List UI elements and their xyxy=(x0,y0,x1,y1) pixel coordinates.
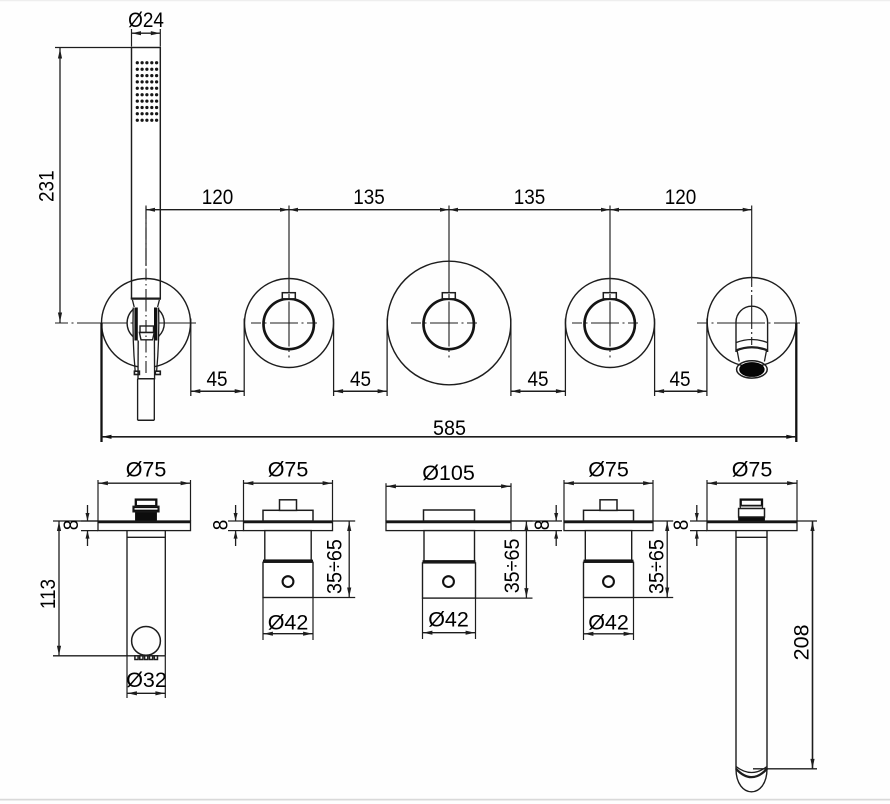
svg-text:45: 45 xyxy=(350,368,371,391)
spout tip inner arc xyxy=(736,767,767,773)
svg-text:585: 585 xyxy=(433,416,466,440)
rosette 2 outer circle xyxy=(245,279,334,368)
45 gap dimension #1: extension lines xyxy=(190,319,192,397)
holder fork right prong xyxy=(157,308,159,372)
spout collar arcs xyxy=(736,340,767,343)
valve 2: upper body xyxy=(265,531,311,561)
spout body U-shape xyxy=(736,306,768,352)
valve 4: dimension Ø42 line xyxy=(584,633,634,635)
valve 2: screw hole xyxy=(283,576,294,587)
svg-text:45: 45 xyxy=(669,368,690,391)
dimension 208: dimension line xyxy=(812,521,814,769)
&#216;105 dimension line xyxy=(386,485,511,487)
hand shower bottom line + 113 extension xyxy=(53,655,165,657)
svg-text:Ø75: Ø75 xyxy=(126,458,167,482)
dimension 585: left extension line xyxy=(100,323,102,442)
dimension 585: right extension line xyxy=(795,323,797,442)
hand shower body (front view) xyxy=(132,48,161,299)
45 gap dimension #4: dimension line xyxy=(655,390,707,392)
dimension 113: extension at plate top xyxy=(53,520,98,522)
svg-text:Ø105: Ø105 xyxy=(422,461,475,485)
spout wall fitting: step xyxy=(740,506,762,509)
svg-text:Ø42: Ø42 xyxy=(588,610,629,634)
45 gap dimension #3: dimension line xyxy=(511,390,566,392)
&#216;75 dimension line xyxy=(707,482,797,484)
rosette 2 vertical centerline xyxy=(288,294,290,358)
valve 2: body divider line xyxy=(263,560,313,563)
thermostat: upper body xyxy=(424,531,475,561)
hand shower spray nozzles xyxy=(135,656,138,660)
45 gap dimension #1: dimension line xyxy=(191,390,244,392)
spout mouth opening (dark) xyxy=(740,363,764,377)
valve 2: lower body xyxy=(263,562,313,597)
valve 2: cap small knob xyxy=(280,500,297,511)
valve 4: screw hole xyxy=(603,576,614,587)
svg-text:8: 8 xyxy=(531,520,554,531)
rosette 4 index tab xyxy=(603,293,616,299)
valve 4: dimension 35÷65 extension lines xyxy=(653,520,673,522)
svg-text:135: 135 xyxy=(514,186,546,209)
valve 2: wall plate (side view) xyxy=(244,521,333,531)
valve 2: dimension 35÷65 line xyxy=(348,521,350,598)
svg-text:Ø75: Ø75 xyxy=(588,458,629,482)
holder: wall plate (side view) xyxy=(98,521,191,531)
valve 4: cap step on plate xyxy=(584,510,634,521)
svg-text:113: 113 xyxy=(37,579,60,609)
svg-text:35÷65: 35÷65 xyxy=(323,539,347,594)
rosette 5 centerline xyxy=(697,322,800,324)
svg-text:8: 8 xyxy=(60,520,83,531)
thermostat: lower body xyxy=(423,563,476,598)
svg-text:Ø32: Ø32 xyxy=(126,668,167,692)
rosette 4 inner knob circle xyxy=(585,299,635,349)
rosette 3 (thermostat, larger) vertical centerline xyxy=(448,294,450,358)
dimension 231: extension line at shower top xyxy=(55,47,132,49)
rosette 1 centerline xyxy=(55,322,200,324)
rosette 3 (thermostat, larger) outer circle xyxy=(387,261,511,385)
hand shower handle hanging (side view) xyxy=(126,531,128,656)
spout wall fitting: collar xyxy=(739,509,765,518)
page top edge xyxy=(0,0,890,2)
hand shower centerline through holder xyxy=(145,300,147,377)
hand shower handle lower part xyxy=(137,379,139,420)
holder wall bracket knob: collar xyxy=(133,506,159,512)
svg-text:8: 8 xyxy=(210,520,233,531)
svg-text:120: 120 xyxy=(202,186,234,209)
hand shower handle upper part xyxy=(137,341,139,379)
svg-text:135: 135 xyxy=(353,186,385,209)
rosette 5 outer circle (spout) xyxy=(707,278,796,367)
svg-text:35÷65: 35÷65 xyxy=(500,538,524,593)
valve 4: dimension 35÷65 line xyxy=(666,521,668,598)
holder clamp box xyxy=(140,326,154,333)
dimension 585: dimension line xyxy=(102,436,797,438)
&#216;75 dimension line xyxy=(564,482,653,484)
&#216;75 dimension line xyxy=(244,482,333,484)
45 gap dimension #3: extension lines xyxy=(510,319,512,397)
rosette 3 (thermostat, larger) centerline xyxy=(411,322,487,324)
45 gap dimension #2: extension lines xyxy=(333,319,335,397)
valve 2: cap step on plate xyxy=(263,510,313,521)
svg-text:45: 45 xyxy=(527,368,548,391)
svg-text:208: 208 xyxy=(789,624,813,660)
rosette 4 outer circle xyxy=(566,279,655,368)
spout mouth outer ring xyxy=(737,361,768,378)
svg-text:35÷65: 35÷65 xyxy=(645,539,669,594)
thermostat: dimension 35÷65 extension lines xyxy=(511,520,533,522)
dimension 231: vertical dimension line xyxy=(59,48,61,324)
valve 4: upper body xyxy=(585,531,631,561)
holder wall bracket knob: top cap xyxy=(136,500,157,507)
hand shower handle front (white) xyxy=(132,299,160,379)
45 gap dimension #4: extension lines xyxy=(654,319,656,397)
valve 2: dimension Ø42 line xyxy=(263,633,313,635)
rosette 4 vertical centerline xyxy=(609,294,611,358)
rosette 3 (thermostat, larger) index tab xyxy=(442,293,455,299)
dimension Ø32: extension lines xyxy=(126,656,128,698)
valve 2: dimension Ø42 extension lines xyxy=(262,598,264,641)
dimension 208: extension at spout tip xyxy=(753,768,817,770)
thermostat: body divider line xyxy=(423,560,476,563)
valve 4: dimension Ø42 extension lines xyxy=(583,598,585,641)
hand shower head circle (side view) xyxy=(132,627,161,656)
svg-text:231: 231 xyxy=(36,170,59,202)
thermostat: dimension Ø42 extension lines xyxy=(422,598,424,639)
thermostat: dimension 35÷65 line xyxy=(525,521,527,598)
valve 4: wall plate (side view) xyxy=(564,521,653,531)
thermostat: cap on plate xyxy=(424,510,475,521)
spout tip outer cap xyxy=(736,769,767,792)
top dimension extension lines at knob centers xyxy=(145,206,147,267)
thermostat: dimension Ø42 line xyxy=(423,632,476,634)
spout taper to mouth xyxy=(737,351,739,362)
holder wall bracket knob: base block xyxy=(136,512,157,521)
rosette 1 inner circle xyxy=(127,304,164,341)
45 gap dimension #2: dimension line xyxy=(334,390,388,392)
svg-text:Ø75: Ø75 xyxy=(268,458,309,482)
spout tube (side view) xyxy=(735,531,737,769)
rosette 2 centerline xyxy=(251,322,327,324)
rosette 3 (thermostat, larger) inner knob circle xyxy=(424,299,474,349)
svg-text:45: 45 xyxy=(206,368,227,391)
spout wall fitting: base band (dark) xyxy=(739,517,765,521)
valve 4: body divider line xyxy=(584,560,634,563)
spout: plate thickness 8 dimension xyxy=(690,520,707,522)
page bottom divider xyxy=(0,799,890,801)
hand shower: Ø24 dimension line xyxy=(132,32,161,34)
holder fork left prong xyxy=(133,308,135,372)
rosette 4 centerline xyxy=(572,322,648,324)
hand shower spray face dot grid xyxy=(136,61,159,122)
spout tip thick arc xyxy=(736,769,767,777)
valve 4: cap small knob xyxy=(600,500,617,511)
valve 2: dimension 35÷65 extension lines xyxy=(333,520,356,522)
svg-text:Ø75: Ø75 xyxy=(732,458,773,482)
rosette 1 outer circle (hand shower holder) xyxy=(102,279,191,368)
thermostat: plate thickness 8 dimension xyxy=(511,520,562,522)
holder: plate thickness 8 dimension xyxy=(81,520,98,522)
hand shower neck below junction xyxy=(132,300,134,307)
hand shower lower junction line xyxy=(131,297,161,299)
svg-text:Ø42: Ø42 xyxy=(268,610,309,634)
thermostat: screw hole xyxy=(443,576,454,587)
thermostat: wall plate (side view) xyxy=(386,521,511,531)
dimension Ø32: dimension line xyxy=(127,692,165,694)
svg-text:8: 8 xyxy=(670,520,693,531)
spout wall fitting: top cap xyxy=(741,500,762,506)
rosette 2 index tab xyxy=(282,293,295,299)
holder fork feet xyxy=(134,371,139,374)
spout: wall plate (side view) xyxy=(707,521,797,531)
dimension 208: extension at plate top xyxy=(797,520,817,522)
top chained dimension line 120/135/135/120 xyxy=(146,209,752,211)
svg-text:Ø24: Ø24 xyxy=(128,9,164,32)
svg-text:120: 120 xyxy=(665,186,697,209)
rosette 2 inner knob circle xyxy=(264,299,314,349)
svg-text:Ø42: Ø42 xyxy=(428,607,469,631)
dimension 113: dimension line xyxy=(58,521,60,656)
&#216;75 dimension line xyxy=(98,482,191,484)
spout vertical centerline xyxy=(751,281,753,345)
valve 2: plate thickness 8 dimension xyxy=(228,520,244,522)
hand shower centerline xyxy=(145,207,147,299)
valve 4: lower body xyxy=(584,562,634,597)
